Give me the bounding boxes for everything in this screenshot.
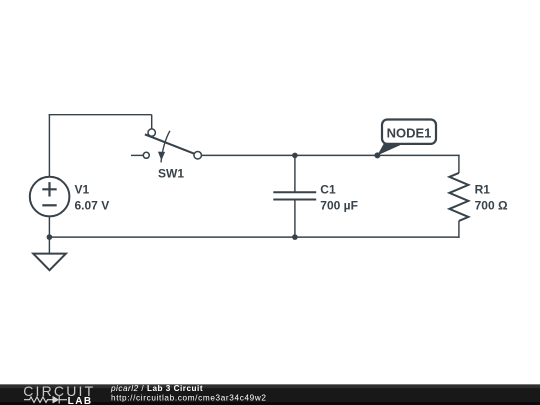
ground — [33, 254, 66, 271]
svg-text:R1: R1 — [475, 183, 491, 197]
voltage source V1 — [30, 177, 70, 217]
NODE1 callout tail — [377, 144, 403, 156]
resistor R1 — [449, 173, 468, 221]
NODE1 callout box — [382, 120, 436, 144]
wire V1 bottom — [48, 217, 50, 237]
label C1 — [320, 183, 358, 213]
node junction C1 top — [292, 153, 298, 159]
CircuitLab logo schematic line with resistor and diode — [24, 396, 67, 404]
wire R1 bottom stub — [458, 221, 460, 238]
svg-text:6.07 V: 6.07 V — [75, 198, 110, 212]
wire bottom rail — [49, 236, 460, 238]
label R1 — [475, 183, 508, 213]
wire SW1 left stub — [131, 154, 143, 156]
svg-text:SW1: SW1 — [158, 167, 184, 181]
wire C1 top — [294, 155, 296, 192]
label SW1 — [158, 167, 184, 181]
svg-text:http://circuitlab.com/cme3ar34: http://circuitlab.com/cme3ar34c49w2 — [111, 394, 267, 403]
switch SW1 — [143, 129, 201, 162]
CircuitLab logo CIRCUIT — [23, 383, 95, 399]
wire top rail SW1 to R1 — [202, 154, 460, 156]
svg-text:NODE1: NODE1 — [387, 126, 432, 141]
switch SW1 arrowhead — [158, 152, 165, 161]
node junction V1 bottom — [47, 234, 53, 240]
capacitor C1 — [273, 192, 316, 199]
wire C1 bottom — [294, 200, 296, 238]
svg-text:LAB: LAB — [68, 396, 93, 405]
CircuitLab logo diode triangle — [53, 396, 60, 404]
svg-text:V1: V1 — [75, 183, 90, 197]
footer bar — [0, 384, 540, 405]
node NODE1 dot — [374, 152, 380, 158]
node junction C1 bottom — [292, 234, 298, 240]
svg-text:700 µF: 700 µF — [320, 198, 358, 212]
wire V1 top to corner — [48, 114, 50, 177]
wire drop to SW1 top terminal — [151, 115, 153, 129]
wire R1 top stub — [458, 155, 460, 173]
svg-text:C1: C1 — [320, 183, 336, 197]
label V1 — [75, 183, 110, 213]
footer title text — [110, 384, 267, 403]
wire ground stub — [48, 237, 50, 254]
wire top horizontal — [49, 114, 152, 116]
CircuitLab logo LAB — [68, 396, 93, 405]
svg-text:700 Ω: 700 Ω — [475, 198, 508, 212]
svg-text:picarl2 / Lab 3 Circuit: picarl2 / Lab 3 Circuit — [110, 384, 203, 393]
